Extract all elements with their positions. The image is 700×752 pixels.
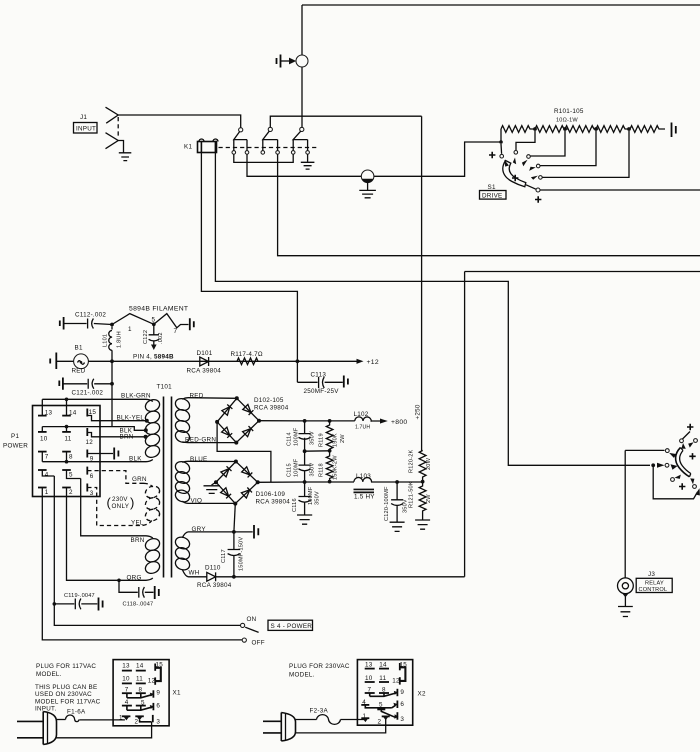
- pin 9: [86, 450, 88, 458]
- wire heater rail down: [111, 361, 113, 426]
- switch S4 ON contact: [241, 623, 245, 627]
- svg-text:230V: 230V: [112, 496, 128, 503]
- svg-text:3: 3: [90, 490, 94, 497]
- diode D103: [243, 404, 254, 415]
- transformer secondary winding BLUE/VIO: [174, 460, 192, 504]
- capacitor C121: [64, 383, 88, 385]
- svg-text:13: 13: [45, 410, 53, 417]
- wire fuse F1 to X1 pin 1: [80, 719, 125, 721]
- wire +12 feed line: [88, 360, 297, 362]
- svg-text:10Ω-1W: 10Ω-1W: [556, 118, 578, 124]
- svg-text:2W: 2W: [426, 494, 432, 503]
- pin 3: [86, 484, 88, 492]
- node tap junction R102-R103: [563, 127, 567, 131]
- svg-text:RED: RED: [72, 368, 86, 375]
- resistor R120: [419, 451, 426, 482]
- ground at J3: [618, 607, 633, 617]
- svg-text:B1: B1: [75, 345, 83, 352]
- chassis connection at GRY lead: [254, 525, 258, 539]
- pin 1: [38, 487, 47, 489]
- svg-text:20W: 20W: [426, 457, 432, 470]
- wire pin 2 down to ORG junction: [67, 497, 153, 581]
- switch S1 rotor crescent: [503, 161, 526, 187]
- node bridge1 corners: [235, 396, 239, 400]
- svg-text:C117: C117: [221, 549, 227, 563]
- svg-text:14: 14: [379, 661, 387, 668]
- svg-text:K1: K1: [184, 144, 192, 151]
- svg-text:R101-105: R101-105: [554, 108, 584, 115]
- transformer winding BRN/ORG: [144, 537, 162, 576]
- X1 pin 9: [152, 690, 154, 697]
- wire bridge1 plus to filter: [259, 420, 330, 422]
- svg-text:+12: +12: [367, 359, 379, 366]
- svg-text:D102-105: D102-105: [254, 397, 284, 404]
- node filament center tap: [152, 322, 156, 326]
- svg-text:YEL: YEL: [131, 520, 144, 527]
- resistor R101: [501, 126, 534, 133]
- diode D101: [200, 357, 209, 366]
- svg-text:7: 7: [125, 686, 129, 693]
- node C114-C115 junction: [303, 449, 307, 453]
- wire relay-control selector feed upper: [625, 449, 664, 451]
- svg-text:J1: J1: [80, 114, 87, 121]
- wire pin 1 down to S4 OFF: [42, 497, 242, 640]
- svg-text:13: 13: [365, 661, 373, 668]
- pin 15: [86, 409, 88, 417]
- X1 jumper 15 to 12: [156, 668, 161, 681]
- pin 14: [62, 415, 71, 417]
- svg-text:PLUG FOR 117VAC: PLUG FOR 117VAC: [36, 663, 96, 670]
- switch S2 rotor crescent: [676, 448, 690, 477]
- svg-text:C118-.0047: C118-.0047: [123, 602, 154, 608]
- svg-text:C115: C115: [287, 463, 293, 477]
- svg-text:1: 1: [119, 714, 123, 721]
- svg-text:INPUT: INPUT: [76, 126, 96, 133]
- transformer T101 core: [164, 397, 172, 578]
- X1 jumper 2-3: [140, 720, 152, 722]
- svg-text:6: 6: [400, 701, 404, 708]
- wire contact1 NC bus to drive network: [247, 142, 501, 176]
- wire switch S1 tap 2: [516, 131, 535, 150]
- AC plug P-117 prongs: [17, 721, 43, 737]
- svg-text:11: 11: [379, 675, 386, 682]
- svg-text:WH: WH: [189, 569, 200, 576]
- wire switch S1 tap 3: [531, 131, 566, 156]
- pin 6: [86, 467, 88, 475]
- svg-text:100MF: 100MF: [294, 458, 300, 477]
- svg-text:PIN 4, 5894B: PIN 4, 5894B: [133, 354, 174, 361]
- switch S2 upper contacts: [680, 439, 684, 443]
- polarity mark plus S2 bottom: [679, 483, 685, 489]
- svg-text:D110: D110: [205, 565, 221, 572]
- svg-text:L101: L101: [103, 334, 109, 347]
- wire plug to fuse F2: [296, 719, 317, 721]
- wire dashed relay actuating linkage: [219, 147, 320, 149]
- wire BLUE lead to bridge2 top: [189, 460, 236, 462]
- wire B1 feed: [57, 360, 74, 362]
- svg-text:2: 2: [69, 489, 73, 496]
- X2 pin 6: [396, 701, 398, 709]
- wire bus joining contact1 and contact3 pivots: [234, 154, 293, 162]
- X1 pin 6: [152, 703, 154, 710]
- svg-text:1: 1: [45, 489, 49, 496]
- svg-text:10: 10: [122, 675, 130, 682]
- wire D110 output to bias rail: [216, 576, 465, 578]
- polarity mark plus S2 top: [687, 424, 693, 430]
- svg-text:F2-3A: F2-3A: [310, 708, 329, 715]
- resistor R103: [565, 126, 598, 133]
- X2 jumper 15 to 12: [400, 667, 405, 681]
- arrow +800: [380, 419, 388, 424]
- inductor L103 core bars: [354, 489, 375, 494]
- polarity mark plus center: [512, 175, 518, 181]
- node C120 junction: [395, 480, 399, 484]
- capacitor C119: [54, 599, 97, 610]
- svg-text:R117-4.7Ω: R117-4.7Ω: [231, 351, 263, 358]
- ground at contact3: [301, 162, 315, 169]
- svg-text:C121-.002: C121-.002: [72, 390, 104, 397]
- svg-text:+800: +800: [391, 419, 408, 426]
- ground at C120: [390, 522, 405, 531]
- wire contact3 NC to ground: [307, 154, 309, 162]
- resistor R102: [535, 126, 568, 133]
- resistor R119: [326, 421, 333, 451]
- svg-text:X2: X2: [418, 691, 426, 698]
- diode D105: [243, 426, 254, 437]
- capacitor C120: [391, 482, 403, 522]
- AC plug P-230 prongs: [263, 721, 281, 733]
- wire bias rail vertical: [464, 272, 466, 577]
- svg-text:BRN: BRN: [131, 537, 145, 544]
- node C121 junction: [110, 382, 114, 386]
- svg-text:X1: X1: [173, 690, 181, 697]
- pin 4: [38, 469, 47, 471]
- svg-text:7: 7: [45, 453, 49, 460]
- AC plug P-117 body: [43, 712, 56, 745]
- svg-text:POWER: POWER: [3, 443, 28, 450]
- wire selector lower leg: [653, 465, 697, 499]
- wire plug bottom prong to X2 pin 2: [296, 719, 386, 733]
- node R120-R121 junction: [421, 480, 425, 484]
- switch S2 selector contact mid arrow: [657, 463, 665, 468]
- switch S1 wiper contact: [536, 188, 540, 192]
- ground at bridge2 minus: [212, 482, 217, 485]
- wire switch S1 tap 5: [543, 131, 630, 178]
- svg-text:C122: C122: [143, 330, 149, 344]
- ground at J1: [119, 153, 132, 161]
- wire vertical from top rail down to feedthrough capacitor and relay contact 3: [301, 5, 303, 127]
- svg-text:8: 8: [139, 686, 143, 693]
- wire bridge1 minus down to bridge2 plus rail: [217, 422, 271, 482]
- relay K1 coil: [198, 139, 219, 153]
- svg-text:PLUG FOR 230VAC: PLUG FOR 230VAC: [289, 663, 350, 670]
- X2 jumper 5 to 3: [381, 709, 395, 717]
- svg-text:11: 11: [65, 435, 72, 442]
- wire RED-GRN lead to bridge1 bottom: [189, 442, 237, 444]
- relay contact set 1: [232, 128, 249, 154]
- resistor R105: [630, 126, 665, 133]
- switch S4 POWER boxed label: [268, 620, 313, 630]
- capacitor C114: [299, 434, 311, 440]
- wire contact2 pivot down and right to edge: [278, 154, 700, 256]
- fuse F1: [66, 715, 80, 722]
- pin 5: [62, 469, 71, 471]
- pin 8: [62, 451, 71, 453]
- svg-text:100MF: 100MF: [294, 427, 300, 446]
- diode D106: [221, 466, 232, 477]
- inductor L103: [354, 477, 423, 482]
- svg-text:350V: 350V: [310, 431, 316, 445]
- svg-text:C113: C113: [311, 372, 327, 379]
- wire C114-C115 junction to R119: [305, 450, 330, 452]
- node C115-C116 junction: [303, 480, 307, 484]
- svg-text:12: 12: [392, 677, 400, 684]
- svg-text:150K: 150K: [333, 433, 339, 447]
- svg-text:C112-.002: C112-.002: [75, 312, 106, 319]
- connector J1 phono jack tip contact: [106, 107, 119, 123]
- wire WH lead: [189, 576, 207, 578]
- fuse F2: [317, 715, 341, 725]
- diode D110: [207, 572, 216, 581]
- svg-text:C120-100MF: C120-100MF: [384, 486, 390, 521]
- wire switch S1 position 1: [500, 144, 503, 154]
- svg-text:BLK-GRN: BLK-GRN: [121, 393, 151, 400]
- svg-text:OFF: OFF: [252, 640, 265, 647]
- svg-text:1: 1: [128, 326, 132, 333]
- svg-text:D101: D101: [197, 350, 213, 357]
- pin 10: [38, 431, 47, 433]
- polarity mark plus S2 mid: [689, 453, 695, 459]
- svg-text:BLK: BLK: [129, 456, 142, 463]
- node primary tap BLK-YEL: [145, 419, 149, 423]
- X1 pin 3: [152, 715, 154, 722]
- capacitor C116: [299, 482, 311, 515]
- svg-text:3: 3: [156, 719, 160, 726]
- svg-text:4: 4: [45, 472, 49, 479]
- pin 11: [62, 431, 71, 433]
- node tap junction R103-R104: [594, 127, 598, 131]
- capacitor C112 chassis bars: [60, 317, 64, 330]
- relay contact set 2: [261, 127, 279, 154]
- feedthrough capacitor on drive line: [359, 170, 376, 198]
- svg-text:ORG: ORG: [127, 575, 142, 582]
- wire plate supply line: [330, 420, 355, 422]
- resistor R104: [596, 126, 629, 133]
- capacitor C113: [319, 377, 325, 388]
- wire plug to fuse F1: [57, 719, 66, 721]
- connector J1 INPUT boxed label: [74, 123, 98, 134]
- svg-text:ON: ON: [247, 616, 257, 623]
- svg-text:D106-109: D106-109: [256, 491, 286, 498]
- svg-text:14: 14: [136, 662, 144, 669]
- chassis connection at B1: [50, 353, 56, 370]
- svg-text:RCA 39804: RCA 39804: [256, 499, 291, 506]
- svg-text:RCA 39804: RCA 39804: [187, 368, 222, 375]
- node primary tap BRN: [144, 435, 148, 439]
- diode D109: [241, 488, 252, 499]
- svg-text:C119-.0047: C119-.0047: [64, 593, 95, 599]
- svg-text:1.8UH: 1.8UH: [117, 331, 123, 348]
- svg-text:15: 15: [89, 409, 97, 416]
- diode D107: [242, 467, 253, 478]
- X2 pin 3: [396, 712, 398, 720]
- svg-text:P1: P1: [11, 433, 19, 440]
- capacitor C113 lead: [297, 381, 317, 383]
- relay contact set 3: [291, 127, 309, 154]
- connector P1 box: [33, 406, 101, 497]
- ground at C116: [297, 515, 312, 524]
- wire VIO lead to bridge2 bottom: [189, 502, 236, 504]
- wire switch S1 tap 4: [540, 131, 596, 166]
- svg-text:RELAY: RELAY: [645, 581, 664, 587]
- inductor L101: [111, 327, 113, 330]
- polarity mark plus lower: [535, 196, 541, 202]
- svg-text:J3: J3: [648, 571, 655, 578]
- svg-text:+250: +250: [415, 404, 422, 419]
- filter capacitor stack rail: [304, 421, 306, 451]
- connector X1 box: [113, 660, 169, 726]
- filament winding of 5894B: [112, 314, 189, 328]
- capacitor C122: [153, 324, 155, 334]
- svg-text:150MF-150V: 150MF-150V: [239, 537, 245, 571]
- X2 jumper 4-6 arrow: [392, 705, 396, 708]
- switch S4 OFF contact: [242, 638, 246, 642]
- svg-text:150K-2W: 150K-2W: [333, 455, 339, 480]
- switch S2 lower contacts: [671, 478, 675, 482]
- pin 2: [62, 487, 71, 489]
- wire pins 10-11 heater rail with jog to BLK tap: [42, 427, 145, 431]
- svg-text:100MF: 100MF: [308, 486, 314, 505]
- rectifier bridge D102-105: [217, 398, 259, 442]
- svg-text:350V: 350V: [315, 491, 321, 505]
- svg-text:9: 9: [400, 689, 404, 696]
- svg-text:RCA 39804: RCA 39804: [197, 582, 232, 589]
- pin 7: [38, 451, 47, 453]
- svg-text:14: 14: [69, 410, 77, 417]
- wire fuse F2 to X2 pin 1: [341, 719, 365, 721]
- wire RED lead to bridge1 top: [189, 397, 237, 400]
- svg-text:CONTROL: CONTROL: [639, 587, 668, 593]
- diode D102: [222, 405, 233, 416]
- node tap junction R104-R105: [627, 127, 631, 131]
- svg-text:C114: C114: [287, 432, 293, 446]
- wire pin 5 down to BRN secondary lead: [81, 479, 153, 539]
- svg-text:): ): [130, 495, 134, 510]
- svg-text:12: 12: [86, 439, 94, 446]
- svg-text:ONLY: ONLY: [112, 503, 130, 510]
- polarity mark plus upper: [489, 152, 495, 158]
- svg-text:.002: .002: [158, 332, 164, 344]
- switch S4 blade: [245, 627, 258, 632]
- switch S2 selector contact upper: [665, 449, 669, 453]
- svg-text:11: 11: [136, 675, 143, 682]
- svg-text:GRN: GRN: [132, 476, 147, 483]
- transformer secondary winding GRY/WH: [174, 532, 192, 577]
- X2 pin 9: [396, 689, 398, 696]
- transformer 230V-only dashed winding: [143, 483, 162, 525]
- wire bias line right portion to edge: [465, 271, 700, 273]
- svg-text:R119: R119: [319, 433, 325, 447]
- svg-text:USED ON 230VAC: USED ON 230VAC: [35, 691, 92, 698]
- pin 12: [86, 428, 88, 436]
- wire dashed jack barrel: [117, 117, 119, 137]
- connector X2 box: [357, 660, 412, 726]
- wire K1 coil lead B down and over to relay-control selector: [215, 153, 650, 466]
- svg-text:350V: 350V: [310, 463, 316, 477]
- resistor R121: [419, 482, 426, 520]
- feedthrough chassis capacitor at chain end: [671, 123, 673, 138]
- wire J1 sleeve to ground: [118, 141, 123, 153]
- node chain left end: [500, 129, 502, 142]
- connector J3 RELAY CONTROL boxed label: [636, 578, 672, 592]
- svg-text:250MF-25V: 250MF-25V: [304, 388, 340, 395]
- wire pins 7-8 to BLK primary bottom lead: [42, 460, 153, 462]
- wire pins 13-14 to BLK-GRN primary lead: [42, 399, 153, 401]
- svg-text:MODEL.: MODEL.: [289, 671, 315, 678]
- wire +12 arrow stub: [297, 360, 356, 362]
- wire S1 wiper output to right edge: [540, 189, 700, 191]
- svg-text:BLK-YEL: BLK-YEL: [117, 415, 145, 422]
- ground at R121: [415, 520, 430, 529]
- svg-text:13: 13: [122, 662, 130, 669]
- svg-text:1.5 HY: 1.5 HY: [354, 494, 375, 501]
- svg-text:RCA 39804: RCA 39804: [254, 405, 289, 412]
- svg-text:BRN: BRN: [120, 433, 134, 440]
- X2 jumper 7-8-9: [370, 693, 396, 696]
- capacitor C118: [119, 580, 154, 597]
- svg-text:1.7UH: 1.7UH: [355, 425, 370, 431]
- lamp B1: [74, 354, 89, 369]
- wire bridge2 plus to L103 line: [258, 481, 354, 483]
- wire +250 rail vertical: [421, 116, 423, 450]
- wire K1 coil lead A down and over to +12 node: [201, 153, 297, 383]
- node +12 junction: [296, 359, 300, 363]
- svg-text:10: 10: [40, 435, 48, 442]
- wire bridge2 AC to GRY line: [234, 504, 235, 532]
- connector J3 body: [618, 578, 634, 594]
- node tap junction R101-R102: [533, 127, 537, 131]
- svg-text:9: 9: [156, 690, 160, 697]
- wire GRY lead line: [189, 531, 253, 533]
- svg-text:12: 12: [148, 677, 156, 684]
- svg-text:8: 8: [69, 453, 73, 460]
- X1 jumper 4-5-6: [127, 707, 152, 710]
- node bridge2 corners: [234, 460, 238, 464]
- switch S1 DRIVE boxed label: [480, 191, 507, 200]
- svg-text:5: 5: [379, 702, 383, 709]
- svg-text:R120-2K: R120-2K: [409, 449, 415, 473]
- svg-text:6: 6: [156, 702, 160, 709]
- svg-text:R121-50K: R121-50K: [409, 481, 415, 508]
- svg-text:R118: R118: [319, 463, 325, 477]
- svg-text:C116: C116: [292, 498, 298, 512]
- svg-text:2: 2: [135, 719, 139, 726]
- node primary tap BLK: [144, 428, 148, 432]
- svg-text:S 4 - POWER: S 4 - POWER: [271, 623, 313, 630]
- connector J3 ground stem: [623, 594, 629, 598]
- svg-text:MODEL.: MODEL.: [36, 671, 62, 678]
- svg-text:T101: T101: [157, 384, 173, 391]
- svg-text:5894B FILAMENT: 5894B FILAMENT: [129, 306, 188, 313]
- diode D104: [222, 427, 233, 438]
- svg-text:MODEL FOR 117VAC: MODEL FOR 117VAC: [35, 698, 101, 705]
- inductor L102: [355, 417, 380, 421]
- wire contact2 NO up and over to +250 rail: [270, 116, 421, 127]
- svg-text:7: 7: [174, 328, 178, 335]
- connector J1 phono jack sleeve contact: [106, 133, 119, 149]
- X1 jumper 7-8-9: [127, 695, 152, 698]
- transformer primary winding BLK-GRN/BLK: [144, 398, 162, 460]
